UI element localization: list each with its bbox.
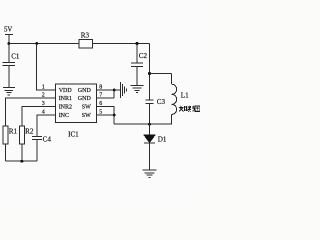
node junction GND pins: [113, 89, 116, 92]
svg-text:C4: C4: [43, 135, 52, 143]
wire pin 5 SW stub: [97, 114, 115, 116]
svg-text:C2: C2: [139, 52, 148, 60]
wire to side ground: [114, 89, 120, 91]
node junction at C2 tap: [136, 42, 139, 45]
svg-text:GND: GND: [78, 96, 92, 102]
ground (sideways, IC GND pins): [121, 82, 127, 98]
wire pin 7 GND stub: [97, 90, 115, 98]
inductor L1: [150, 74, 190, 125]
svg-text:R3: R3: [81, 31, 90, 39]
wire pin 8 GND stub: [97, 89, 115, 91]
svg-text:SW: SW: [82, 105, 91, 111]
wire bottom rail (R1,R2,C4 common): [6, 160, 37, 162]
svg-text:INR2: INR2: [59, 105, 72, 111]
ground (below C2): [131, 86, 144, 93]
svg-text:6: 6: [99, 101, 102, 107]
node junction output (SW / C3 / L1 / D1): [148, 123, 151, 126]
wire pin 3 INR2 to R2: [22, 107, 55, 127]
svg-text:R1: R1: [9, 127, 18, 135]
capacitor C4: [32, 135, 52, 161]
svg-text:8: 8: [99, 85, 102, 91]
node 5V terminal: [5, 35, 13, 44]
resistor R2: [19, 126, 34, 161]
svg-text:VDD: VDD: [59, 88, 73, 94]
diode D1: [144, 124, 167, 170]
svg-text:IC1: IC1: [68, 131, 79, 139]
svg-text:L1: L1: [181, 92, 189, 100]
svg-text:R2: R2: [25, 127, 34, 135]
resistor R3: [79, 31, 93, 47]
wire right vertical (rail down to output node, through C3): [149, 44, 151, 125]
wire top rail left (5V to R3): [9, 43, 79, 45]
capacitor C1: [3, 44, 20, 88]
resistor R1: [3, 126, 18, 161]
svg-text:4: 4: [42, 110, 45, 116]
svg-text:5: 5: [99, 110, 102, 116]
svg-text:GND: GND: [78, 88, 92, 94]
op-amp / driver IC1 box: [55, 84, 96, 139]
wire coil top branch: [150, 73, 172, 75]
wire pin 6 SW stub: [97, 107, 115, 125]
svg-text:5V: 5V: [4, 26, 12, 33]
svg-text:7: 7: [99, 93, 102, 99]
svg-text:1: 1: [42, 85, 45, 91]
wire SW net to output node: [114, 123, 149, 125]
wire pin 2 INR1 to R1: [6, 98, 56, 126]
svg-text:2: 2: [42, 93, 45, 99]
capacitor C3: [145, 98, 165, 106]
ground (below D1): [143, 170, 157, 177]
svg-text:INC: INC: [59, 113, 69, 119]
wire top rail right (R3 to corner): [92, 43, 149, 45]
node junction coil top tap: [148, 72, 151, 75]
svg-text:C1: C1: [11, 53, 20, 61]
wire VDD tap to pin 1: [37, 44, 56, 91]
svg-text:3: 3: [42, 101, 45, 107]
svg-text:SW: SW: [82, 113, 91, 119]
node junction R2 bottom: [20, 160, 23, 163]
ground (below C1): [3, 88, 15, 95]
wire pin 4 INC to C4: [37, 115, 55, 137]
node junction VDD tap: [35, 42, 38, 45]
svg-text:INR1: INR1: [59, 96, 72, 102]
capacitor C2: [131, 44, 147, 86]
svg-text:D1: D1: [158, 136, 167, 144]
svg-text:C3: C3: [157, 98, 166, 106]
node junction at 5V/C1: [7, 42, 10, 45]
node junction SW pins: [113, 114, 116, 117]
label 发射线圈 (transmit coil), drawn as tiny glyph strokes: [179, 106, 200, 112]
